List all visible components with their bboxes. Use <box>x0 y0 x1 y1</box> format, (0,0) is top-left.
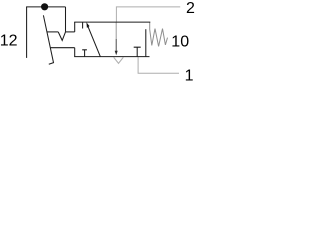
linkage bottom vertical <box>74 48 76 57</box>
valve body left edge <box>82 22 84 28</box>
blocked port T right <box>134 47 141 56</box>
svg-text:2: 2 <box>186 0 195 17</box>
valve body top edge <box>74 21 150 23</box>
valve spool divider with down flow line <box>115 22 117 39</box>
wire port 2 (grey pneumatic line to label 2) <box>116 7 180 22</box>
exhaust vent V below valve <box>114 57 124 63</box>
flow path arrow shaft (left square) <box>88 26 100 56</box>
roller bracket right vertical <box>65 7 67 32</box>
svg-text:1: 1 <box>185 68 194 81</box>
wire port 1 (grey pneumatic line to label 1) <box>138 57 179 73</box>
roller bracket top rail <box>26 6 65 8</box>
lever arm with idle-return foot <box>43 15 53 64</box>
valve body bottom edge <box>74 56 149 58</box>
arrowhead down (exhaust flow arrow) <box>115 51 118 56</box>
linkage upper horizontal right <box>66 31 75 33</box>
flow line lower segment <box>115 39 117 51</box>
roller (filled circle) <box>41 3 48 10</box>
svg-text:12: 12 <box>0 32 18 49</box>
flow path arrowhead <box>86 22 89 28</box>
linkage lower horizontal <box>50 47 74 49</box>
roller bracket left vertical <box>26 7 28 58</box>
pivot V notch <box>58 32 65 41</box>
linkage top vertical <box>74 22 76 32</box>
spring (return spring zigzag) <box>150 22 168 46</box>
valve body right edge lower <box>145 29 147 56</box>
blocked port T left <box>82 50 87 57</box>
svg-text:10: 10 <box>171 33 189 50</box>
linkage upper horizontal left <box>47 31 58 33</box>
